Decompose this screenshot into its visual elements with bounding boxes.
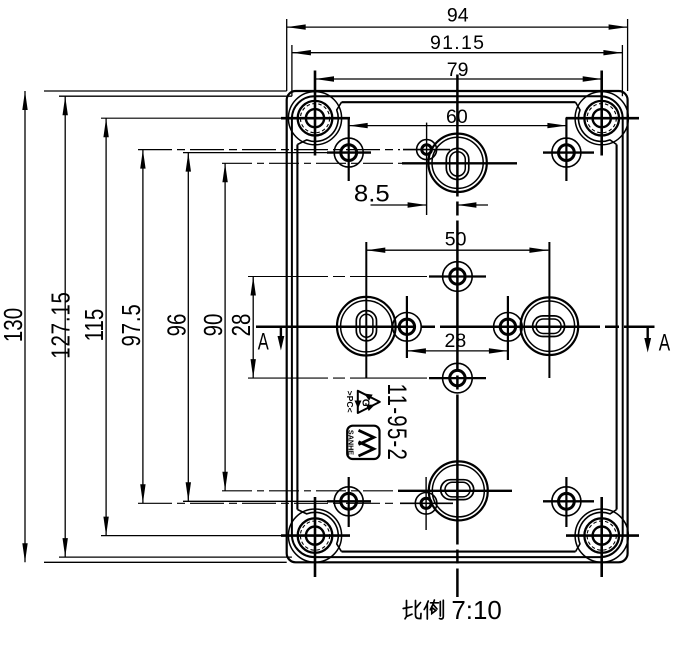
corner screw TR crosshair — [566, 117, 639, 120]
dimension 127.15 line and extensions — [64, 96, 66, 557]
small hole left of center — [393, 313, 422, 342]
section marker A left — [258, 328, 285, 356]
horizontal centerline section A-A — [256, 326, 655, 329]
corner screw inner wall arc TR — [576, 102, 617, 144]
dimension 94 line — [287, 26, 628, 28]
corner screw TL crosshair — [101, 117, 281, 119]
svg-text:A: A — [258, 329, 269, 356]
mounting hole bottom-right crosshair — [543, 500, 594, 502]
dimension 115 line — [105, 118, 107, 535]
inner wall top segment — [342, 101, 576, 103]
mounting hole top-left crosshair — [327, 151, 371, 153]
dimension 28 vertical line — [252, 277, 254, 379]
inner wall right segment — [616, 145, 618, 510]
svg-text:60: 60 — [446, 106, 468, 128]
inner wall left segment — [296, 145, 298, 510]
corner screw inner wall arc BL — [297, 510, 341, 552]
small hole beside bottom boss — [415, 493, 437, 515]
corner screw hole TR outer circles — [584, 101, 619, 136]
svg-text:91.15: 91.15 — [430, 32, 485, 54]
boss left with vertical slot — [337, 297, 396, 356]
corner screw hole BL outer circles — [298, 518, 333, 553]
corner screw hole TL outer circles — [298, 101, 333, 136]
dimension 96 arrows — [186, 153, 191, 172]
corner screw boss ring TR — [575, 92, 628, 145]
boss right centerline — [548, 242, 550, 378]
boss bottom with horizontal slot — [429, 461, 488, 520]
dimension 8.5 line — [371, 204, 427, 206]
svg-text:79: 79 — [447, 59, 469, 81]
small hole beside top boss — [417, 140, 437, 160]
boss left centerline — [365, 242, 367, 378]
small hole right of center — [494, 313, 523, 342]
boss top crosshair — [222, 162, 402, 164]
svg-text:8.5: 8.5 — [354, 181, 390, 208]
SANHE logo chevrons — [359, 430, 374, 444]
enclosure outer outline — [287, 91, 628, 562]
corner screw boss ring BL — [288, 509, 341, 562]
dimension 130 line and extensions — [24, 91, 26, 562]
svg-text:97.5: 97.5 — [117, 303, 146, 346]
dimension 91.15 line — [292, 52, 623, 54]
corner screw hole TL inner circle — [306, 109, 324, 127]
svg-text:11-95-2: 11-95-2 — [381, 384, 411, 462]
svg-text:130: 130 — [0, 308, 28, 342]
mounting hole bottom-right — [552, 487, 581, 516]
dimension 50 line — [366, 249, 548, 251]
dimension 97.5 arrows — [140, 150, 145, 169]
svg-text:94: 94 — [447, 5, 469, 27]
recycling symbol triangle — [358, 391, 380, 413]
dimension 79 arrows — [315, 76, 334, 81]
dimension 28 horizontal arrows — [407, 348, 426, 353]
inner wall bottom segment — [342, 551, 576, 553]
corner screw BL crosshair — [101, 535, 281, 537]
mounting hole top-right — [552, 138, 581, 167]
boss right with horizontal slot — [521, 297, 579, 355]
svg-text:96: 96 — [162, 314, 191, 337]
center hole upper — [443, 262, 473, 292]
mounting hole top-left — [334, 138, 363, 167]
dimension 94 arrows — [287, 24, 306, 29]
vertical centerline — [456, 75, 459, 598]
svg-text:>PC<: >PC< — [345, 391, 355, 413]
corner screw inner wall arc TL — [297, 102, 341, 144]
dimension 127.15 arrows — [63, 96, 68, 115]
corner screw boss ring BR — [575, 509, 628, 562]
dimension 115 arrows — [103, 118, 108, 137]
svg-text:90: 90 — [199, 314, 228, 337]
mounting hole bottom-left crosshair — [327, 500, 371, 502]
svg-text:A: A — [659, 329, 670, 356]
svg-text:50: 50 — [445, 229, 467, 251]
boss top with vertical slot — [428, 134, 486, 192]
dimension 8.5 arrows — [408, 202, 427, 207]
dimension 97.5 line — [142, 150, 144, 504]
svg-text:28: 28 — [227, 314, 256, 337]
dimension 28 vertical arrows — [251, 277, 256, 296]
dimension 94 extension lines — [286, 19, 288, 91]
corner screw inner wall arc BR — [576, 510, 617, 552]
section marker A right — [644, 328, 670, 357]
corner screw hole BR inner circle — [593, 527, 611, 545]
scale text BiLi (scale) drawn strokes — [403, 600, 443, 619]
svg-text:G: G — [359, 399, 370, 407]
dimension 79 line — [315, 78, 602, 80]
dimension 50 arrows — [366, 248, 385, 253]
dimension 96 line and extensions — [187, 153, 189, 502]
corner screw boss ring TL — [288, 92, 341, 145]
svg-text:28: 28 — [445, 330, 467, 352]
dimension 91.15 extension lines — [291, 45, 293, 96]
dimension 28 horizontal line — [407, 350, 508, 352]
mounting hole top-right crosshair — [543, 151, 594, 153]
svg-text:7:10: 7:10 — [451, 595, 501, 625]
dimension 90 line — [224, 163, 226, 491]
svg-text:SANHE: SANHE — [347, 430, 356, 455]
corner screw hole BL inner circle — [306, 527, 324, 545]
corner screw BR crosshair — [566, 534, 639, 537]
svg-text:115: 115 — [80, 309, 109, 342]
boss bottom crosshair — [222, 490, 398, 492]
svg-text:127.15: 127.15 — [46, 291, 75, 358]
corner screw hole BR outer circles — [584, 518, 619, 553]
corner screw hole TR inner circle — [593, 109, 611, 127]
center hole lower — [443, 363, 473, 393]
dimension 60 arrows — [349, 123, 368, 128]
dimension 130 arrows — [22, 91, 27, 110]
dimension 90 arrows — [222, 163, 227, 182]
dimension 91.15 arrows — [292, 50, 311, 55]
enclosure lid seam outline — [292, 96, 623, 557]
SANHE logo box — [347, 426, 379, 459]
dimension 60 line — [349, 125, 567, 127]
mounting hole bottom-left — [334, 487, 363, 516]
